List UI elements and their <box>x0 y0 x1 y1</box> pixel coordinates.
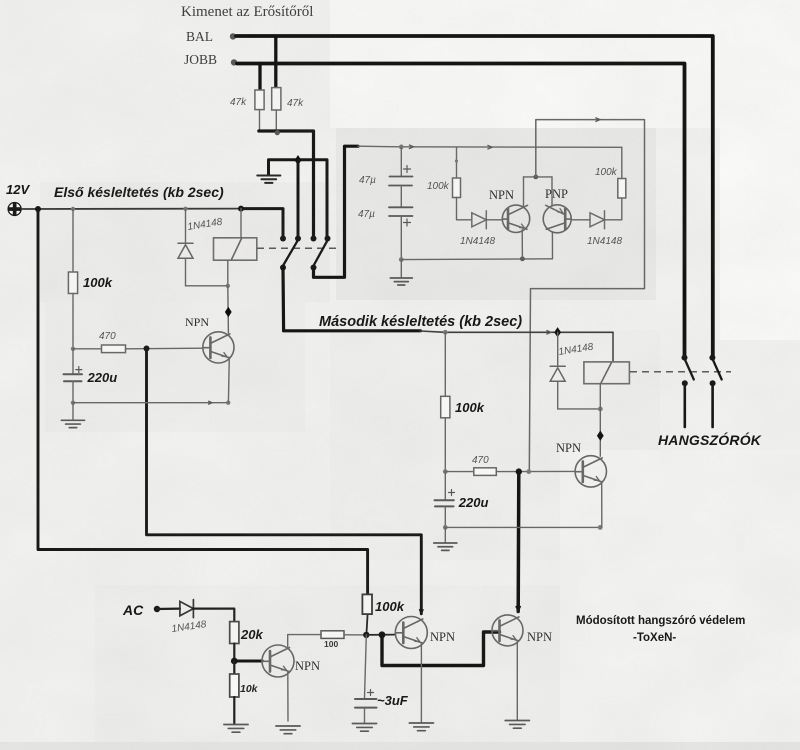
node base node npn2 <box>363 632 369 638</box>
wire 10k to ground <box>233 697 235 724</box>
label 47u upper <box>359 175 376 186</box>
wire pnp emitter up <box>551 177 553 206</box>
transistor PNP detector <box>543 205 571 233</box>
node rail tap 100k-2 <box>443 330 448 335</box>
wire BAL output to right speaker contact <box>236 36 713 358</box>
node collector diamond first delay <box>225 307 232 317</box>
node collector diamond second delay <box>597 431 604 441</box>
wire 470-2 to base <box>496 470 575 472</box>
ground first delay <box>61 403 84 428</box>
node relay1 bottom dot <box>226 284 230 288</box>
resistor 100k detector left <box>453 178 461 198</box>
label 47k right <box>287 98 304 109</box>
capacitor 220u second delay <box>435 472 455 528</box>
node ground bus junction <box>295 155 302 165</box>
label 100k bottom <box>375 599 405 614</box>
wire pole2 to detector <box>314 146 359 277</box>
label JOBB <box>184 52 217 67</box>
wire relay2 bottom to diode <box>558 408 601 410</box>
resistor 470 second delay <box>474 468 497 476</box>
wire detector bottom rail <box>401 258 552 261</box>
node detector output join <box>526 469 531 474</box>
resistor 100k detector right <box>618 179 626 199</box>
label BAL <box>186 29 213 44</box>
resistor 100k first delay <box>68 272 77 294</box>
wire second delay rail <box>420 330 613 334</box>
transistor NPN detector <box>502 205 529 232</box>
ground npn3 <box>505 721 529 729</box>
wire relay1 bottom to diode <box>186 260 228 286</box>
diode 1N4148 detector right <box>590 211 605 229</box>
label 20k <box>240 627 263 642</box>
contact pole1 first relay <box>280 236 301 271</box>
label 1N4148 second delay <box>558 342 595 358</box>
wire detector top rail <box>358 145 622 149</box>
wire dashed actuator second relay <box>630 371 731 373</box>
node BAL terminal dot <box>230 33 236 39</box>
wire diode to npn base <box>486 219 502 221</box>
power 12V entry symbol <box>8 203 21 216</box>
label 10k <box>240 683 259 695</box>
wire rail to relay contact <box>241 209 283 239</box>
label Modositott hangszoro vedelem <box>576 615 745 627</box>
resistor 100k bottom <box>362 594 372 614</box>
contact pole2 first relay <box>311 236 331 271</box>
wire 12V rail <box>22 208 241 210</box>
label 1N4148 detector right <box>587 236 622 247</box>
node relay2 diode dot <box>598 407 603 412</box>
label 470 second delay <box>472 455 489 466</box>
diode 1N4148 second delay <box>550 332 565 409</box>
label ToXeN <box>633 632 676 644</box>
node collector bus dot <box>533 175 538 180</box>
node rail tap 100k <box>71 207 75 211</box>
label 47k left <box>230 97 247 108</box>
wire BAL drop to 47k <box>274 38 277 89</box>
node rail diode2 diamond <box>554 327 561 337</box>
wire detector output run <box>529 118 644 472</box>
label 100k detector right <box>595 167 618 178</box>
wire 100 to node <box>344 634 366 636</box>
label Masodik keslelteres <box>319 314 522 330</box>
ground 10k <box>224 725 248 733</box>
wire dashed actuator first relay <box>257 247 340 249</box>
capacitor 220u first delay <box>64 349 83 403</box>
label 1N4148 detector left <box>460 236 495 247</box>
wire 100k-left to diode <box>457 198 472 220</box>
wire diode to 20k <box>193 609 234 622</box>
ground 3uF <box>352 724 376 732</box>
transistor NPN bottom first <box>262 645 294 677</box>
node npn emitter rail dot <box>520 256 525 261</box>
transistor NPN first delay <box>203 332 234 363</box>
wire 100k left lead <box>455 147 458 178</box>
wire emitter npn1 down <box>287 672 289 721</box>
wire pnp collector down <box>551 232 553 259</box>
transistor NPN second delay <box>575 456 606 487</box>
label 220u first delay <box>87 370 118 385</box>
wire emitter down second delay <box>601 482 603 528</box>
wire AC to diode <box>157 607 180 610</box>
label 47u lower <box>358 209 375 220</box>
wire base tie U-run <box>382 632 500 666</box>
resistor 100 <box>321 631 344 639</box>
wire 100k-1 bottom lead <box>72 294 74 349</box>
node 470 node <box>71 347 75 351</box>
relay coil first delay <box>214 209 257 261</box>
wire 470-2 left lead <box>445 471 474 473</box>
label HANGSZOROK <box>658 431 762 448</box>
label 100 <box>324 639 338 649</box>
label Kimenet az Erositorol <box>181 4 313 20</box>
node hold tap <box>516 468 522 474</box>
wire base lead bottom npn1 <box>234 660 262 663</box>
resistor 470 first delay <box>102 345 126 353</box>
wire 12V down-left run <box>38 209 368 594</box>
node emitter-2 rail end <box>598 525 603 530</box>
wire node to 10k <box>233 661 235 674</box>
ground npn2 <box>409 723 433 731</box>
label 3uF <box>377 693 409 708</box>
label NPN bottom first <box>295 659 320 673</box>
wire 470 to base <box>126 347 203 350</box>
label NPN second delay <box>556 441 581 455</box>
ground npn1 <box>276 726 300 734</box>
wire emitter rail first delay <box>73 401 228 404</box>
wire pnp base to diode <box>571 219 590 221</box>
node AC base node <box>231 658 238 665</box>
resistor 20k <box>230 622 239 644</box>
label 100k second delay <box>455 400 485 415</box>
label NPN bottom third <box>527 630 552 644</box>
label 1N4148 first delay <box>187 217 224 233</box>
diode 1N4148 first delay <box>178 209 193 286</box>
resistor 47k right <box>272 88 281 132</box>
wire pole1 to second delay <box>283 268 421 331</box>
wire 20k to node <box>233 644 235 662</box>
wire diode to 100k right <box>605 198 622 220</box>
wire 47k join bus <box>259 131 314 239</box>
wire 100k-1 top lead <box>72 209 74 272</box>
wire collector npn1 to 100 resistor <box>288 635 321 647</box>
wire 100k-2 bottom lead <box>444 418 446 472</box>
wire JOBB output to left speaker contact <box>237 64 685 358</box>
label NPN bottom second <box>430 630 455 644</box>
wire left speaker stub <box>683 383 686 427</box>
label AC <box>122 602 144 618</box>
wire 100k-3 bottom lead <box>366 614 367 635</box>
label 100k detector left <box>427 181 450 192</box>
node cap bottom <box>399 257 404 262</box>
wire 100k-2 top lead <box>444 332 446 396</box>
wire ground bus <box>269 160 328 239</box>
label 220u second delay <box>458 495 489 510</box>
diode 1N4148 detector left <box>472 211 487 229</box>
resistor 10k <box>230 674 239 697</box>
ground second delay <box>434 527 457 550</box>
transistor NPN bottom second <box>395 617 427 649</box>
node 220u bottom <box>71 401 75 405</box>
wire rail to relay2 <box>612 332 614 361</box>
wire emitter npn3 down <box>516 641 518 719</box>
capacitor 3uF <box>355 635 377 723</box>
wire relay2 to collector <box>599 384 601 457</box>
node rail relay junction <box>238 206 244 212</box>
diode 1N4148 AC <box>180 600 194 618</box>
wire right speaker stub <box>711 383 714 427</box>
capacitor 47u lower <box>389 186 413 260</box>
wire hold run down <box>516 472 521 612</box>
label NPN detector <box>489 188 514 202</box>
node 220u-2 bottom <box>443 525 448 530</box>
label Elso keslelteres <box>54 184 224 200</box>
node emitter rail end <box>226 401 230 405</box>
wire contact pole1b feed <box>297 160 300 238</box>
wire emitter rail second delay <box>445 526 602 528</box>
wire relay1 to collector <box>227 286 230 333</box>
wire npn emitter down <box>521 230 523 259</box>
label PNP detector <box>545 187 568 201</box>
node JOBB terminal dot <box>231 59 237 65</box>
node discharge tap <box>144 346 150 352</box>
node rail tap diode <box>183 207 187 211</box>
wire JOBB drop to 47k <box>258 65 261 91</box>
wire npn collector up <box>523 177 525 206</box>
wire emitter npn2 down <box>420 643 422 722</box>
label 1N4148 AC <box>171 619 208 635</box>
resistor 100k second delay <box>441 396 450 418</box>
node AC terminal <box>154 606 160 612</box>
node 12V junction <box>35 206 41 212</box>
ground detector <box>390 260 412 285</box>
label 470 first delay <box>99 331 116 342</box>
wire collector bus <box>524 176 553 178</box>
resistor 47k left <box>255 90 264 131</box>
capacitor 47u upper <box>389 147 413 186</box>
wire node to base npn2 <box>366 634 395 636</box>
relay coil second delay <box>584 362 630 384</box>
node cap top <box>399 145 404 150</box>
node 470-2 node <box>443 469 448 474</box>
wire discharge run A <box>147 349 424 614</box>
node 47k join dot <box>275 130 280 135</box>
ground input bus <box>257 176 280 183</box>
contact right speaker <box>709 355 721 387</box>
node base tie tap <box>379 631 386 638</box>
wire 100k right top lead <box>621 147 623 178</box>
label 12V <box>6 182 30 197</box>
wire emitter down first delay <box>227 357 230 402</box>
wire 470 left lead <box>73 348 102 350</box>
label NPN first delay <box>185 315 209 329</box>
transistor NPN bottom third <box>492 615 523 646</box>
contact left speaker <box>682 355 694 387</box>
label 100k first delay <box>83 275 113 290</box>
